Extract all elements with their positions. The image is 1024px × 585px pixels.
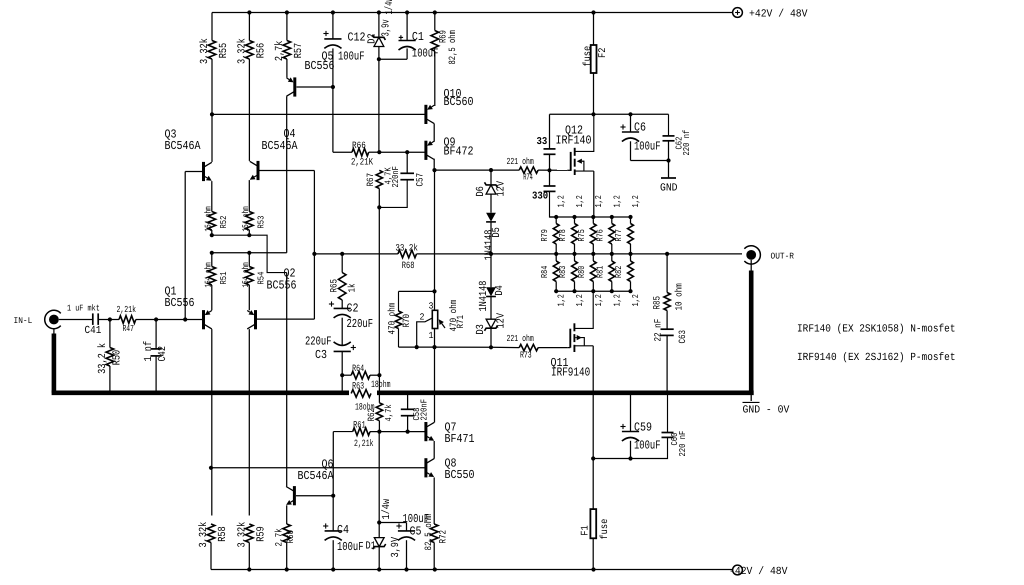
terminal +42V [733, 8, 743, 18]
svg-text:220nF: 220nF [391, 166, 401, 188]
svg-text:1,2: 1,2 [612, 195, 622, 207]
wire C41 to R47 [98, 319, 119, 321]
svg-text:R55: R55 [218, 43, 230, 59]
svg-text:R71: R71 [455, 315, 466, 329]
svg-text:R52: R52 [219, 216, 229, 229]
capacitor C2 220uF [334, 307, 351, 309]
zener D2 3,9V [378, 13, 380, 38]
svg-text:C6: C6 [634, 121, 646, 135]
svg-text:33: 33 [537, 136, 548, 148]
svg-text:R82: R82 [614, 266, 624, 278]
svg-text:BC556: BC556 [305, 59, 335, 73]
transistor Q8 BC550 [424, 458, 427, 477]
svg-text:220uF: 220uF [305, 335, 332, 349]
wire ground trace thick [53, 329, 55, 335]
wire +V top rail [212, 12, 733, 14]
svg-text:R76: R76 [596, 229, 606, 241]
svg-text:C41: C41 [85, 325, 102, 337]
svg-text:C59: C59 [634, 421, 652, 435]
resistor R78 1,2 [572, 224, 578, 245]
capacitor C63 22 nF [661, 328, 674, 330]
svg-text:R60: R60 [285, 530, 296, 544]
svg-text:1k: 1k [347, 283, 358, 292]
wire lower tail to Q6 collector [286, 273, 288, 487]
resistor R70 470 ohm [398, 291, 400, 311]
svg-text:2,21K: 2,21K [351, 157, 373, 168]
potentiometer R71 470 ohm [432, 310, 437, 328]
wire source bus top [550, 216, 631, 218]
svg-text:22 nF: 22 nF [653, 319, 664, 342]
resistor R64 [342, 374, 351, 376]
svg-text:BC560: BC560 [444, 95, 474, 109]
svg-text:R80: R80 [577, 266, 587, 278]
svg-text:R79: R79 [540, 229, 550, 241]
svg-text:R53: R53 [256, 216, 266, 229]
capacitor C41 [92, 313, 94, 325]
capacitor C1 [406, 13, 408, 41]
resistor R80 1,2 [590, 261, 596, 282]
capacitor C4 100uF [332, 496, 334, 531]
svg-text:D1: D1 [366, 541, 376, 553]
wire bias to Q7 collector [434, 347, 436, 422]
svg-text:1/4w: 1/4w [381, 498, 393, 519]
zener D6 12V [490, 170, 492, 185]
resistor R51 [211, 253, 213, 267]
svg-text:R47: R47 [123, 323, 134, 334]
svg-text:R59: R59 [255, 526, 267, 542]
svg-text:BC546A: BC546A [165, 139, 202, 153]
zener D1 3,9V [378, 432, 380, 538]
svg-text:GND: GND [660, 183, 678, 195]
svg-text:2,7k: 2,7k [274, 528, 285, 546]
svg-text:330: 330 [532, 191, 548, 203]
transistor Q1 BC556 [202, 310, 205, 329]
wire ground trace thick right [377, 390, 754, 395]
wire Q10 collector to Q9 emitter [433, 124, 435, 142]
resistor R55 [211, 13, 213, 41]
svg-text:220 nF: 220 nF [678, 431, 688, 457]
node VAS top to gates line [433, 159, 435, 170]
capacitor 330pF [549, 170, 551, 185]
svg-text:33,2k: 33,2k [395, 243, 418, 254]
svg-text:fuse: fuse [582, 46, 594, 67]
svg-text:D5: D5 [491, 227, 503, 237]
svg-text:IN-L: IN-L [14, 316, 33, 326]
svg-text:R74: R74 [523, 171, 533, 182]
wire Q4 base to feedback node [260, 170, 315, 172]
transistor Q11 IRF9140 [569, 329, 571, 348]
resistor R81 1,2 [609, 261, 615, 282]
svg-text:C5: C5 [410, 525, 422, 539]
diode D5 1N4148 [486, 213, 496, 222]
svg-text:R51: R51 [219, 272, 229, 285]
resistor R58 [207, 524, 215, 543]
wire jack to C41 [59, 319, 93, 321]
resistor R66 [333, 151, 352, 153]
svg-text:1,2: 1,2 [557, 294, 567, 306]
svg-text:OUT-R: OUT-R [771, 252, 795, 262]
resistor R69 [434, 13, 436, 31]
svg-text:BC546A: BC546A [298, 469, 335, 483]
transistor Q12 IRF140 [570, 152, 572, 171]
capacitor C62 220nf [668, 114, 670, 135]
wire Q2 base [257, 318, 314, 320]
wire Q8 base line [211, 467, 425, 469]
resistor R82 1,2 [628, 261, 634, 282]
resistor R56 [248, 13, 250, 41]
svg-text:100uF: 100uF [338, 50, 365, 64]
svg-text:220 nf: 220 nf [682, 130, 692, 156]
node Q3 collector / Q10 base line [210, 112, 214, 116]
svg-text:fuse: fuse [599, 519, 611, 540]
svg-text:+42V / 48V: +42V / 48V [749, 8, 808, 20]
svg-text:BF471: BF471 [445, 432, 475, 446]
svg-text:C2: C2 [347, 302, 359, 316]
resistor R84 1,2 [553, 261, 559, 282]
svg-text:10 ohm: 10 ohm [674, 283, 685, 310]
svg-text:220nF: 220nF [419, 399, 429, 421]
svg-text:GND - 0V: GND - 0V [743, 405, 790, 417]
svg-text:1,2: 1,2 [575, 294, 585, 306]
resistor R74 221 ohm [519, 167, 538, 173]
capacitor C59 100uF [630, 395, 632, 432]
svg-text:R61: R61 [353, 419, 366, 430]
resistor R67 [376, 170, 382, 188]
wire feedback vertical [313, 171, 315, 320]
svg-text:3,32k: 3,32k [199, 38, 211, 64]
svg-text:C42: C42 [157, 346, 169, 362]
svg-text:D4: D4 [494, 285, 506, 295]
svg-text:1,2: 1,2 [575, 195, 585, 207]
svg-text:R66: R66 [352, 140, 366, 151]
fuse F1 [592, 459, 594, 570]
ground GND - 0V [750, 395, 752, 401]
resistor R75 1,2 [590, 224, 596, 245]
svg-text:R73: R73 [520, 350, 532, 361]
wire R64 right node down to R62 [378, 375, 380, 403]
wire -V bottom rail [211, 569, 733, 571]
svg-text:BC556: BC556 [165, 296, 195, 310]
svg-text:IRF9140 (EX 2SJ162) P-mosfet: IRF9140 (EX 2SJ162) P-mosfet [797, 352, 956, 364]
resistor R62 [376, 403, 382, 421]
svg-text:154 ohm: 154 ohm [203, 206, 213, 231]
svg-text:BC546A: BC546A [262, 139, 299, 153]
wire Q1 collector down [211, 329, 213, 515]
wire Q1 base to Q3 base [184, 172, 186, 320]
wire Q9 base line [379, 151, 424, 153]
resistor R60 [286, 505, 288, 524]
svg-text:1 nf: 1 nf [143, 341, 155, 362]
svg-text:2,7k: 2,7k [274, 41, 286, 62]
svg-text:1,2: 1,2 [594, 195, 604, 207]
transistor Q10 BC560 [424, 105, 427, 124]
resistor R61 2,21k [333, 431, 352, 433]
wire Q2 collector down [248, 329, 250, 515]
transistor Q3 BC546A [202, 162, 205, 181]
wire Q7 emitter to Q8 collector [433, 441, 435, 459]
svg-text:1: 1 [429, 330, 434, 341]
transistor Q2 BC556 [254, 310, 257, 329]
resistor R63 18ohm [351, 390, 371, 398]
svg-text:220uF: 220uF [347, 317, 374, 331]
wire bias top line [399, 290, 435, 292]
svg-text:R68: R68 [402, 260, 415, 271]
svg-text:100uF: 100uF [634, 140, 661, 154]
svg-text:C63: C63 [677, 330, 688, 344]
capacitor C60 220 nF [667, 395, 669, 432]
svg-text:IRF140 (EX 2SK1058) N-mosfet: IRF140 (EX 2SK1058) N-mosfet [797, 324, 956, 336]
svg-text:1,2: 1,2 [594, 294, 604, 306]
transistor Q7 BF471 [424, 422, 427, 441]
svg-text:C4: C4 [337, 523, 349, 537]
svg-text:R85: R85 [652, 296, 663, 310]
svg-text:82,5 ohm: 82,5 ohm [447, 30, 458, 65]
svg-text:1,2: 1,2 [631, 294, 641, 306]
resistor R72 [433, 477, 435, 524]
wire R61 to Q6 base vertical [332, 432, 334, 496]
svg-text:R72: R72 [438, 530, 449, 544]
resistor R59 [246, 524, 254, 543]
capacitor C58 220nF [407, 395, 409, 409]
svg-text:R67: R67 [365, 173, 376, 187]
transistor Q6 BC546A [293, 486, 296, 505]
transistor Q4 BC546A [257, 161, 260, 180]
svg-text:3,32k: 3,32k [236, 522, 248, 548]
wire Q5 base [297, 86, 333, 88]
transistor Q9 BF472 [424, 141, 427, 160]
svg-text:R81: R81 [596, 266, 606, 278]
svg-text:C3: C3 [315, 348, 327, 362]
resistor R54 [248, 253, 250, 267]
svg-text:C12: C12 [348, 31, 366, 45]
svg-text:100uF: 100uF [337, 540, 364, 554]
svg-text:BC550: BC550 [445, 468, 475, 482]
resistor R57 [286, 13, 288, 41]
svg-text:R75: R75 [577, 229, 587, 241]
wire source bus bottom [557, 290, 630, 292]
connector OUT-R [744, 246, 760, 264]
resistor R50 [109, 320, 111, 348]
resistor R79 1,2 [553, 224, 559, 245]
capacitor C3 220uF [334, 342, 351, 346]
svg-text:R70: R70 [401, 314, 412, 328]
svg-text:1N4148: 1N4148 [478, 281, 490, 312]
wire R51 R54 tops to Q5 collector [211, 252, 287, 254]
wire Q12 drain node [550, 113, 669, 115]
resistor R85 10 ohm [666, 254, 668, 293]
capacitor C5 100uF [379, 522, 406, 524]
diode D4 1N4148 [490, 254, 492, 287]
svg-text:2,21k: 2,21k [354, 438, 374, 449]
svg-text:D6: D6 [475, 186, 487, 196]
svg-text:12V: 12V [496, 313, 508, 329]
svg-text:154 ohm: 154 ohm [241, 262, 251, 287]
svg-text:C1: C1 [412, 30, 424, 44]
svg-text:R56: R56 [255, 43, 267, 59]
capacitor C42 [155, 320, 157, 349]
wire OUT-R to ground trace thick [750, 260, 752, 272]
svg-text:1 uF mkt: 1 uF mkt [67, 303, 100, 313]
resistor R47 [119, 316, 136, 324]
svg-text:18ohm: 18ohm [371, 379, 391, 390]
resistor R68 33,2k [398, 250, 417, 258]
capacitor C12 [332, 13, 334, 39]
svg-text:C57: C57 [415, 173, 426, 187]
resistor R77 1,2 [628, 224, 634, 245]
svg-text:221 ohm: 221 ohm [507, 333, 535, 344]
wire C3 node to gnd trace [341, 375, 343, 391]
svg-text:D2: D2 [367, 33, 379, 43]
fuse F2 [593, 13, 595, 115]
svg-text:R65: R65 [329, 279, 340, 293]
wire Q11 drain down [592, 346, 594, 459]
transistor Q5 BC556 [293, 77, 296, 96]
wire upper tail R52 R53 [212, 235, 287, 272]
svg-text:2: 2 [420, 312, 425, 323]
svg-text:R54: R54 [256, 272, 266, 285]
wire R67 node down [378, 207, 380, 375]
svg-text:12V: 12V [496, 181, 508, 197]
svg-text:4,7k: 4,7k [384, 404, 394, 421]
svg-text:2,21k: 2,21k [117, 304, 137, 315]
svg-text:IRF9140: IRF9140 [551, 366, 590, 380]
wire output line [417, 253, 743, 255]
svg-text:R63: R63 [352, 381, 364, 392]
svg-text:221 ohm: 221 ohm [507, 156, 535, 167]
svg-text:R64: R64 [352, 363, 364, 374]
wire R47 to Q1 base [136, 319, 202, 321]
svg-text:154 ohm: 154 ohm [241, 206, 251, 231]
wire Q6 base [296, 495, 333, 497]
capacitor 33pF [549, 114, 551, 148]
svg-text:470 ohm: 470 ohm [387, 303, 398, 335]
svg-text:154 ohm: 154 ohm [203, 262, 213, 287]
svg-text:R50: R50 [112, 350, 124, 366]
wire VAS vertical to bias pot [434, 170, 436, 310]
svg-text:R84: R84 [540, 266, 550, 278]
svg-text:R62: R62 [366, 408, 377, 422]
svg-text:R77: R77 [614, 229, 624, 241]
svg-text:-42V / 48V: -42V / 48V [729, 566, 788, 578]
svg-text:3,9v: 3,9v [381, 19, 393, 37]
svg-text:3,32k: 3,32k [198, 522, 210, 548]
svg-text:F2: F2 [598, 48, 609, 58]
resistor R76 1,2 [609, 224, 615, 245]
svg-text:BF472: BF472 [444, 145, 474, 159]
svg-text:100uF: 100uF [634, 439, 661, 453]
zener D3 12V [486, 319, 496, 328]
svg-text:3,32k: 3,32k [236, 38, 248, 64]
connector IN-L jack [45, 310, 61, 328]
svg-text:D3: D3 [475, 324, 487, 334]
resistor R65 [341, 254, 343, 273]
svg-text:1,2: 1,2 [612, 294, 622, 306]
svg-text:R83: R83 [558, 266, 568, 278]
svg-text:R58: R58 [217, 526, 229, 542]
resistor R52 [211, 181, 213, 211]
capacitor C57 220nF [406, 152, 408, 173]
resistor R53 [248, 180, 250, 211]
capacitor C6 100uF [630, 114, 632, 132]
ground [668, 161, 670, 178]
svg-text:1/4w: 1/4w [384, 0, 396, 15]
svg-text:R57: R57 [293, 43, 305, 59]
wire feedback line to R68 [314, 253, 398, 255]
svg-text:33,2 k: 33,2 k [97, 343, 109, 374]
wire bias bottom line [399, 346, 492, 348]
svg-text:1,2: 1,2 [631, 195, 641, 207]
svg-text:BC556: BC556 [267, 279, 297, 293]
svg-text:82,5 ohm: 82,5 ohm [423, 514, 434, 551]
resistor R83 1,2 [572, 261, 578, 282]
svg-text:IRF140: IRF140 [556, 134, 592, 148]
svg-text:1,2: 1,2 [557, 195, 567, 207]
svg-text:R78: R78 [558, 229, 568, 241]
svg-text:F1: F1 [581, 525, 592, 535]
resistor R73 221 ohm [491, 346, 519, 348]
svg-text:3: 3 [429, 301, 434, 312]
